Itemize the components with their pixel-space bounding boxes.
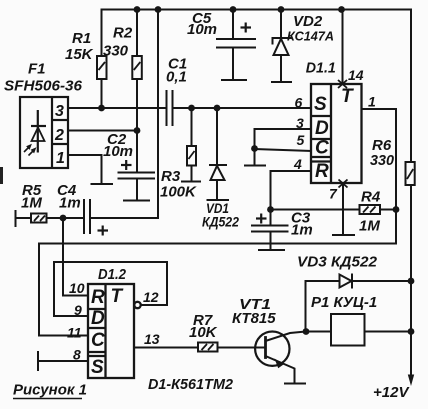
svg-text:D1.2: D1.2 <box>98 266 127 283</box>
svg-text:VD3 КД522: VD3 КД522 <box>297 254 378 271</box>
svg-text:R: R <box>315 161 329 182</box>
svg-text:P1 КУЦ-1: P1 КУЦ-1 <box>311 294 377 311</box>
svg-text:+12V: +12V <box>373 384 410 401</box>
svg-text:3: 3 <box>296 115 304 131</box>
svg-text:12: 12 <box>143 289 159 305</box>
svg-text:R3: R3 <box>161 168 181 185</box>
svg-text:8: 8 <box>73 347 81 363</box>
svg-text:R4: R4 <box>361 189 381 206</box>
svg-text:1M: 1M <box>359 218 380 235</box>
svg-text:КС147А: КС147А <box>287 29 334 44</box>
svg-text:13: 13 <box>144 331 160 347</box>
svg-text:7: 7 <box>329 186 338 202</box>
svg-text:1: 1 <box>56 150 65 167</box>
svg-text:100K: 100K <box>160 184 197 201</box>
svg-text:R1: R1 <box>72 30 91 47</box>
svg-text:4: 4 <box>293 156 302 172</box>
svg-text:КД522: КД522 <box>202 214 239 230</box>
svg-text:2: 2 <box>54 127 64 144</box>
svg-text:VD2: VD2 <box>293 13 323 30</box>
svg-text:D1-К561ТМ2: D1-К561ТМ2 <box>148 376 234 393</box>
svg-text:S: S <box>91 357 104 378</box>
svg-text:C: C <box>91 330 105 351</box>
svg-text:11: 11 <box>67 325 82 341</box>
svg-text:Рисунок 1: Рисунок 1 <box>13 382 87 399</box>
svg-text:6: 6 <box>295 95 303 111</box>
svg-text:9: 9 <box>74 302 82 318</box>
svg-text:10m: 10m <box>103 143 133 160</box>
svg-text:330: 330 <box>370 152 395 169</box>
svg-text:D: D <box>315 118 329 139</box>
svg-text:330: 330 <box>103 43 129 60</box>
svg-text:3: 3 <box>55 103 64 120</box>
svg-text:F1: F1 <box>28 61 46 78</box>
svg-text:1m: 1m <box>291 222 313 239</box>
svg-text:D: D <box>91 308 105 329</box>
svg-text:10m: 10m <box>187 21 217 38</box>
svg-text:D1.1: D1.1 <box>306 60 336 77</box>
svg-text:R: R <box>91 287 105 308</box>
svg-text:5: 5 <box>297 132 305 148</box>
svg-text:10K: 10K <box>189 324 218 341</box>
svg-text:10: 10 <box>69 280 85 296</box>
svg-text:1: 1 <box>368 94 376 110</box>
svg-text:SFH506-36: SFH506-36 <box>4 78 83 95</box>
svg-text:14: 14 <box>348 67 364 83</box>
svg-text:0,1: 0,1 <box>166 69 187 86</box>
svg-text:T: T <box>341 86 354 107</box>
svg-text:15K: 15K <box>65 46 94 63</box>
svg-text:C: C <box>315 138 329 159</box>
svg-text:1M: 1M <box>21 195 42 212</box>
svg-text:S: S <box>314 94 327 115</box>
svg-text:R2: R2 <box>113 25 133 42</box>
svg-text:КТ815: КТ815 <box>232 310 276 327</box>
svg-text:T: T <box>111 286 124 307</box>
svg-text:1m: 1m <box>59 195 81 212</box>
